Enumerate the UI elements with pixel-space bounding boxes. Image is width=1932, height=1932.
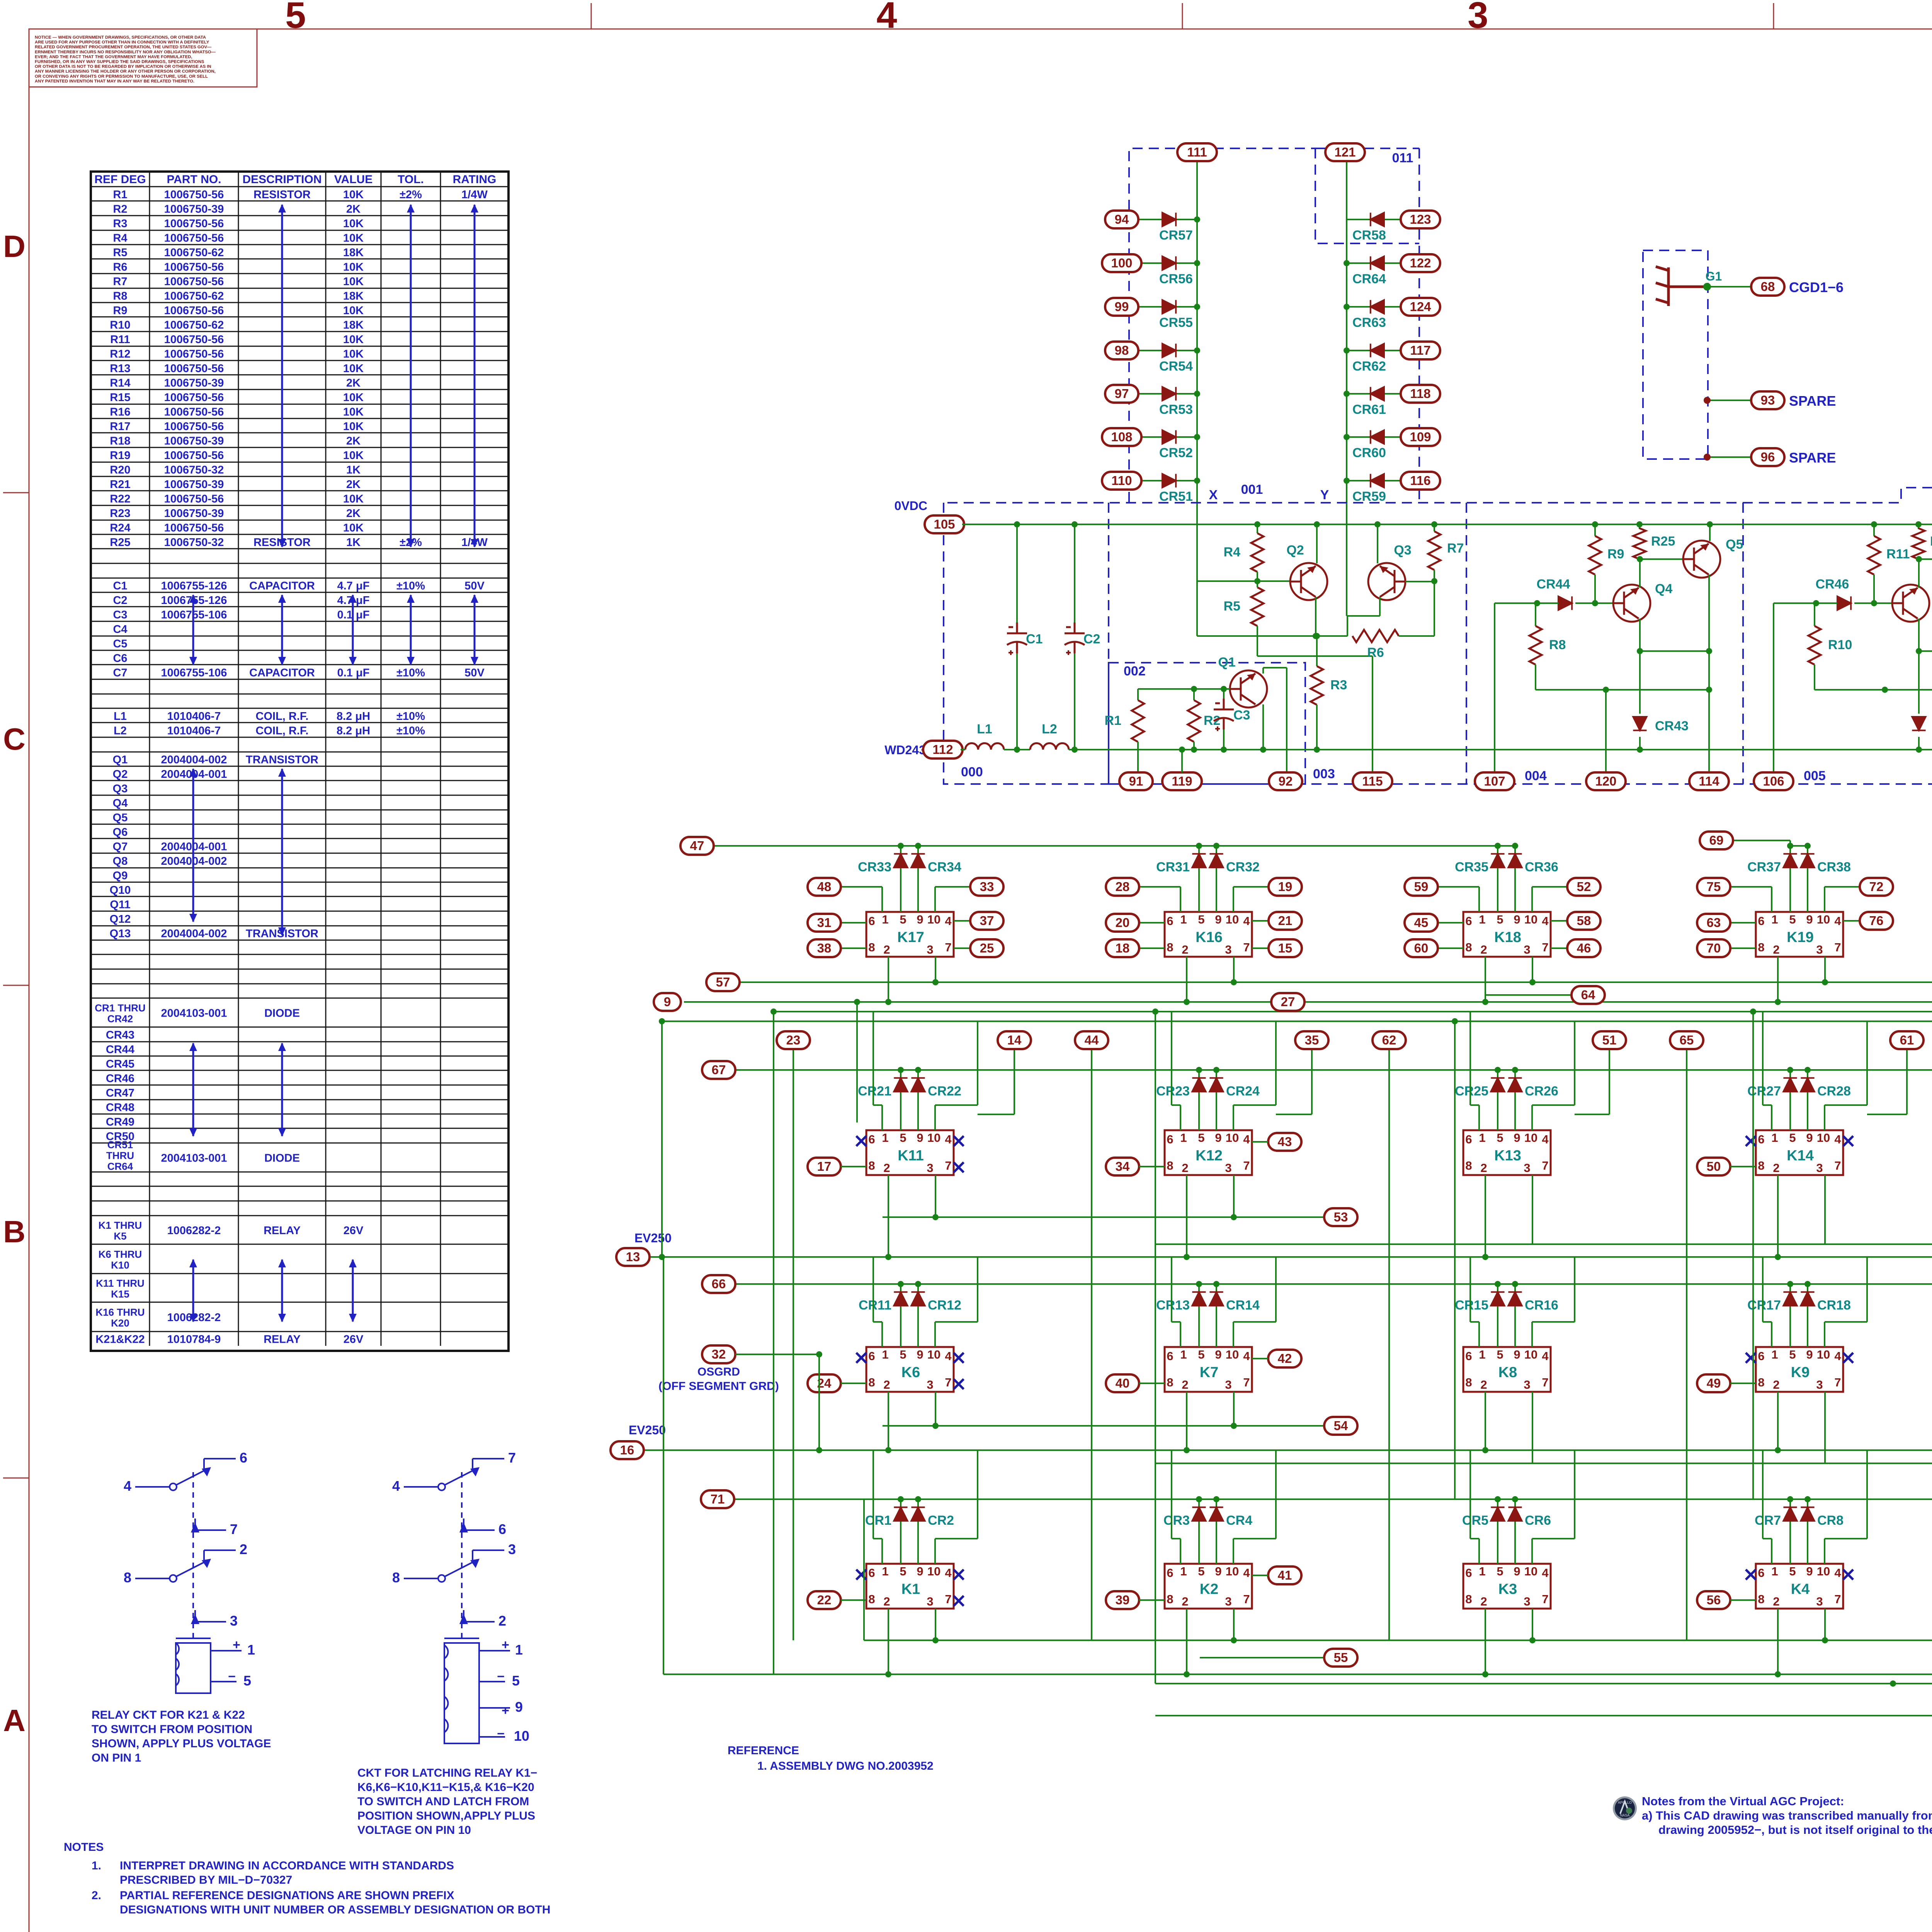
wire 114 vertical xyxy=(1708,651,1710,772)
svg-text:CR37: CR37 xyxy=(1747,860,1781,874)
relay K4 pin10 wire xyxy=(1824,1539,1825,1564)
svg-text:6: 6 xyxy=(1465,1566,1472,1580)
svg-text:8.2 μH: 8.2 μH xyxy=(337,710,370,723)
svg-text:10: 10 xyxy=(1226,1131,1239,1145)
svg-text:R6: R6 xyxy=(1367,645,1384,660)
wire terminal 124 to diode xyxy=(1347,306,1404,308)
relay K17 pin numbers xyxy=(868,913,952,956)
svg-text:3: 3 xyxy=(1524,943,1530,956)
svg-text:35: 35 xyxy=(1305,1033,1319,1047)
wire lower rail xyxy=(1814,665,1815,690)
svg-text:7: 7 xyxy=(1542,940,1548,954)
svg-text:55: 55 xyxy=(1334,1650,1348,1665)
svg-text:CR49: CR49 xyxy=(106,1116,134,1128)
svg-text:3: 3 xyxy=(927,1378,933,1391)
svg-text:PARTIAL REFERENCE DESIGNATIONS: PARTIAL REFERENCE DESIGNATIONS ARE SHOWN… xyxy=(120,1889,454,1902)
svg-text:2: 2 xyxy=(1773,1595,1779,1608)
diode CR11 xyxy=(900,1284,901,1347)
svg-text:a) This CAD drawing was transc: a) This CAD drawing was transcribed manu… xyxy=(1642,1809,1932,1822)
svg-text:4: 4 xyxy=(392,1478,400,1494)
svg-text:TOL.: TOL. xyxy=(398,173,424,186)
svg-text:1K: 1K xyxy=(346,464,361,476)
terminal 61 wire xyxy=(1906,1049,1908,1114)
svg-text:C2: C2 xyxy=(113,594,127,607)
wire 25 to 7 xyxy=(954,947,987,949)
svg-text:98: 98 xyxy=(1115,343,1129,357)
svg-text:6: 6 xyxy=(868,1349,875,1363)
svg-text:10: 10 xyxy=(927,913,940,926)
diode CR13 xyxy=(1198,1284,1200,1347)
relay K3 pin1 wire xyxy=(1478,1539,1480,1564)
svg-text:K3: K3 xyxy=(1498,1581,1517,1597)
svg-text:40: 40 xyxy=(1116,1376,1130,1390)
relay K9 pin1 wire xyxy=(1771,1322,1772,1347)
svg-text:CR38: CR38 xyxy=(1817,860,1851,874)
svg-text:1006750-62: 1006750-62 xyxy=(164,319,224,331)
diode CR60 xyxy=(1371,430,1384,444)
terminal 24 xyxy=(808,1374,841,1392)
svg-text:3: 3 xyxy=(927,943,933,956)
svg-text:20: 20 xyxy=(1116,915,1130,930)
terminal 121 xyxy=(1325,143,1365,161)
terminal 39 xyxy=(1106,1591,1139,1609)
svg-text:69: 69 xyxy=(1709,833,1724,847)
svg-text:ANY MANNER LICENSING THE HOLDE: ANY MANNER LICENSING THE HOLDER OR ANY O… xyxy=(35,69,216,74)
svg-text:Q4: Q4 xyxy=(1655,582,1672,596)
diode CR57 xyxy=(1162,213,1176,226)
svg-text:EV250: EV250 xyxy=(634,1231,672,1245)
svg-text:41: 41 xyxy=(1278,1568,1292,1582)
wire bottom mesh 4440 xyxy=(1155,1715,1932,1716)
svg-text:1010406-7: 1010406-7 xyxy=(167,710,221,723)
svg-text:+: + xyxy=(233,1638,240,1652)
wire WD243 bus through 003 004 005 xyxy=(1317,749,1932,750)
svg-text:CR52: CR52 xyxy=(1159,446,1193,460)
terminal 21 xyxy=(1269,912,1302,930)
diode CR23 xyxy=(1198,1070,1200,1130)
diode CR54 xyxy=(1162,344,1176,357)
terminal 122 xyxy=(1401,254,1440,272)
svg-text:1006750-32: 1006750-32 xyxy=(164,464,224,476)
svg-text:R12: R12 xyxy=(110,348,130,360)
terminal 44 xyxy=(1075,1031,1108,1049)
svg-text:CR6: CR6 xyxy=(1525,1513,1551,1528)
wire terminal 108 to diode xyxy=(1138,436,1197,438)
svg-text:3: 3 xyxy=(1225,1595,1231,1608)
relay K19 xyxy=(1756,912,1843,957)
svg-text:105: 105 xyxy=(934,517,955,531)
diode CR25 xyxy=(1497,1070,1498,1130)
relay K14 xyxy=(1756,1130,1843,1175)
resistor R10 xyxy=(1814,603,1815,626)
relay row4 pin stubs xyxy=(888,1609,889,1674)
svg-text:1: 1 xyxy=(1479,913,1485,926)
resistor R20 xyxy=(1918,524,1919,529)
svg-text:R24: R24 xyxy=(110,522,130,534)
svg-text:5: 5 xyxy=(1497,1565,1503,1578)
svg-text:2: 2 xyxy=(1480,1595,1487,1608)
svg-text:Q1: Q1 xyxy=(113,753,128,766)
wire 63 to 6 xyxy=(1714,922,1756,923)
svg-text:10K: 10K xyxy=(343,189,364,201)
relay K7 pin1 wire xyxy=(1180,1322,1181,1347)
terminal 92 xyxy=(1269,772,1302,790)
svg-text:NOTES: NOTES xyxy=(64,1841,104,1854)
svg-text:CAPACITOR: CAPACITOR xyxy=(249,580,315,592)
svg-text:L1: L1 xyxy=(114,710,127,723)
svg-text:2: 2 xyxy=(883,1595,890,1608)
svg-text:CR34: CR34 xyxy=(928,860,961,874)
svg-text:14: 14 xyxy=(1007,1033,1022,1047)
svg-text:CR21: CR21 xyxy=(858,1084,891,1099)
svg-text:37: 37 xyxy=(980,913,994,928)
terminal 17 xyxy=(808,1158,841,1175)
relay K8 xyxy=(1463,1347,1551,1392)
svg-text:R9: R9 xyxy=(113,304,127,317)
svg-text:OR OTHER DATA IS NOT TO BE REG: OR OTHER DATA IS NOT TO BE REGARDED BY I… xyxy=(35,65,211,69)
svg-text:5: 5 xyxy=(1198,1565,1204,1578)
svg-text:9: 9 xyxy=(1806,1131,1813,1145)
svg-text:drawing 2005952−, but is not i: drawing 2005952−, but is not itself orig… xyxy=(1658,1823,1932,1837)
svg-text:Q5: Q5 xyxy=(113,811,128,824)
svg-text:CR22: CR22 xyxy=(928,1084,961,1099)
terminal 62 wire xyxy=(1388,1049,1390,1640)
wire 46 to 7 xyxy=(1551,947,1584,949)
svg-text:CR55: CR55 xyxy=(1159,315,1193,330)
svg-text:10K: 10K xyxy=(343,391,364,404)
dashed box 001 xyxy=(1129,148,1419,502)
svg-text:2004103-001: 2004103-001 xyxy=(161,1152,227,1165)
relay K17 xyxy=(866,912,954,957)
svg-text:CR42: CR42 xyxy=(107,1013,133,1025)
relay row3 pin stubs xyxy=(888,1392,889,1450)
capacitor C1 xyxy=(1016,653,1018,750)
terminal 59 xyxy=(1405,878,1438,896)
svg-text:10K: 10K xyxy=(343,522,364,534)
relay K7 pin10 wire xyxy=(1233,1322,1234,1347)
relay K1 pin numbers xyxy=(868,1565,952,1608)
svg-text:25: 25 xyxy=(980,941,994,955)
terminal 57 xyxy=(706,973,740,991)
terminal 55 xyxy=(1324,1649,1357,1667)
terminal 91 xyxy=(1119,772,1153,790)
svg-text:EVER; AND THE FACT THAT THE GO: EVER; AND THE FACT THAT THE GOVERNMENT M… xyxy=(35,54,192,59)
svg-text:5: 5 xyxy=(1497,1348,1503,1361)
wire spare 93 xyxy=(1707,400,1754,401)
svg-text:19: 19 xyxy=(1278,879,1293,894)
svg-text:1006750-56: 1006750-56 xyxy=(164,362,224,375)
relay K16 pin10 wire xyxy=(1233,887,1234,912)
wire terminal 118 to diode xyxy=(1347,393,1404,395)
svg-text:+: + xyxy=(502,1703,509,1718)
wire 47 bus xyxy=(714,845,1515,847)
relay K4 xyxy=(1756,1564,1843,1609)
svg-text:R1: R1 xyxy=(113,189,127,201)
svg-text:2: 2 xyxy=(240,1541,247,1557)
svg-text:FURNISHED, OR IN ANY WAY SUPPL: FURNISHED, OR IN ANY WAY SUPPLIED THE SA… xyxy=(35,60,204,64)
relay row2 pin stubs xyxy=(888,1175,889,1257)
svg-text:1006750-56: 1006750-56 xyxy=(164,348,224,360)
relay K2 pin10 wire xyxy=(1233,1539,1234,1564)
svg-text:CR7: CR7 xyxy=(1755,1513,1781,1528)
svg-text:3: 3 xyxy=(927,1161,933,1175)
terminal 114 xyxy=(1689,772,1729,790)
svg-text:50: 50 xyxy=(1707,1159,1721,1173)
svg-text:10: 10 xyxy=(1817,1565,1830,1578)
svg-text:K6 THRU: K6 THRU xyxy=(99,1248,142,1260)
svg-text:8: 8 xyxy=(124,1570,131,1585)
svg-text:3: 3 xyxy=(927,1595,933,1608)
svg-text:1: 1 xyxy=(882,1348,888,1361)
svg-text:72: 72 xyxy=(1869,879,1884,894)
svg-text:K12: K12 xyxy=(1196,1148,1223,1164)
svg-text:1: 1 xyxy=(1479,1131,1485,1145)
svg-text:Notes from the Virtual AGC Pro: Notes from the Virtual AGC Project: xyxy=(1642,1794,1844,1808)
svg-text:9: 9 xyxy=(1215,1348,1221,1361)
relay K7 pin numbers xyxy=(1167,1348,1250,1391)
svg-text:10: 10 xyxy=(1524,1565,1537,1578)
svg-text:2004004-002: 2004004-002 xyxy=(161,927,227,940)
svg-text:TO SWITCH FROM POSITION: TO SWITCH FROM POSITION xyxy=(92,1723,252,1736)
svg-text:8: 8 xyxy=(868,940,875,954)
terminal 45 xyxy=(1405,914,1438,932)
svg-text:111: 111 xyxy=(1187,145,1207,159)
wire link rail xyxy=(1919,650,1932,652)
svg-text:61: 61 xyxy=(1900,1033,1914,1047)
diode CR56 xyxy=(1162,256,1176,270)
wire 71 bus xyxy=(734,1498,1932,1500)
svg-text:ON PIN 1: ON PIN 1 xyxy=(92,1752,141,1764)
svg-text:6: 6 xyxy=(1167,914,1173,928)
svg-text:8.2 μH: 8.2 μH xyxy=(337,724,370,737)
svg-text:18K: 18K xyxy=(343,290,364,302)
svg-text:K18: K18 xyxy=(1494,929,1521,946)
svg-text:9: 9 xyxy=(1514,913,1520,926)
svg-text:1010406-7: 1010406-7 xyxy=(167,724,221,737)
resistor R25 xyxy=(1639,524,1640,529)
relay K6 pin10 wire xyxy=(934,1322,936,1347)
terminal 118 xyxy=(1401,385,1440,403)
terminal 94 xyxy=(1105,211,1138,228)
svg-text:TRANSISTOR: TRANSISTOR xyxy=(246,753,318,766)
svg-text:1: 1 xyxy=(1771,913,1778,926)
terminal 43 xyxy=(1268,1133,1301,1151)
terminal 44 wire xyxy=(1091,1049,1092,1640)
wire 106 vertical xyxy=(1773,603,1774,772)
terminal 112 xyxy=(923,741,963,759)
svg-text:8: 8 xyxy=(1465,1159,1472,1172)
transistor Q5 xyxy=(1683,541,1720,578)
wire 36 line xyxy=(1155,1463,1932,1464)
svg-text:50V: 50V xyxy=(464,580,485,592)
relay K12 pin10 wire xyxy=(1233,1105,1234,1130)
svg-text:A: A xyxy=(3,1703,26,1738)
svg-text:2: 2 xyxy=(1182,1595,1188,1608)
svg-text:62: 62 xyxy=(1382,1033,1396,1047)
svg-text:1006750-39: 1006750-39 xyxy=(164,377,224,389)
terminal 38 xyxy=(808,939,841,957)
diode CR8 xyxy=(1807,1499,1808,1564)
svg-text:66: 66 xyxy=(712,1277,726,1291)
svg-text:9: 9 xyxy=(1806,1565,1813,1578)
transistor Q6 xyxy=(1892,585,1929,622)
svg-text:1006750-56: 1006750-56 xyxy=(164,232,224,244)
relay K16 pin numbers xyxy=(1167,913,1250,956)
svg-text:CGD1−6: CGD1−6 xyxy=(1789,279,1844,295)
svg-text:1010784-9: 1010784-9 xyxy=(167,1333,221,1345)
svg-text:R25: R25 xyxy=(110,536,130,549)
svg-text:CR33: CR33 xyxy=(858,860,891,874)
svg-text:7: 7 xyxy=(1243,1376,1250,1389)
terminal 98 xyxy=(1105,342,1138,359)
terminal 60 xyxy=(1405,939,1438,957)
parts table ditto arrows xyxy=(281,205,283,547)
svg-text:33: 33 xyxy=(980,879,994,894)
wire terminal 117 to diode xyxy=(1347,350,1404,351)
svg-text:10K: 10K xyxy=(343,304,364,317)
svg-text:+: + xyxy=(502,1638,509,1652)
wire Q6 collector xyxy=(1918,559,1920,588)
diode CR5 xyxy=(1497,1499,1498,1564)
resistor R7 xyxy=(1434,524,1435,531)
svg-text:R20: R20 xyxy=(1930,534,1932,549)
diode CR12 xyxy=(917,1284,919,1347)
svg-text:4: 4 xyxy=(1542,1566,1549,1580)
relay K17 pin10 wire xyxy=(934,887,936,912)
svg-text:6: 6 xyxy=(240,1450,247,1466)
diode CR17 xyxy=(1789,1284,1791,1347)
svg-text:R3: R3 xyxy=(113,218,127,230)
relay K9 pin10 wire xyxy=(1824,1322,1825,1347)
relay K4 pin1 wire xyxy=(1771,1539,1772,1564)
svg-text:K19: K19 xyxy=(1787,929,1814,946)
svg-text:REF DEG: REF DEG xyxy=(94,173,146,186)
svg-text:C3: C3 xyxy=(1233,708,1250,723)
svg-text:CAPACITOR: CAPACITOR xyxy=(249,667,315,679)
svg-text:R16: R16 xyxy=(110,406,130,418)
svg-text:000: 000 xyxy=(961,765,983,779)
relay K19 pin numbers xyxy=(1758,913,1841,956)
diode CR6 xyxy=(1514,1499,1516,1564)
relay K1 pin1 wire xyxy=(881,1539,883,1564)
svg-text:CR28: CR28 xyxy=(1817,1084,1851,1099)
diode CR3 xyxy=(1198,1499,1200,1564)
svg-text:10K: 10K xyxy=(343,218,364,230)
svg-text:C7: C7 xyxy=(113,667,127,679)
wire 67 bus xyxy=(735,1069,1932,1071)
svg-text:3: 3 xyxy=(1468,0,1488,36)
wire 45 to 6 xyxy=(1421,922,1463,923)
svg-text:7: 7 xyxy=(1834,1376,1841,1389)
relay K6 pin1 wire xyxy=(881,1322,883,1347)
svg-text:9: 9 xyxy=(1215,1565,1221,1578)
svg-text:5: 5 xyxy=(1789,1131,1796,1145)
svg-text:108: 108 xyxy=(1111,430,1132,444)
svg-text:10: 10 xyxy=(1817,1131,1830,1145)
svg-text:Q13: Q13 xyxy=(110,927,131,940)
svg-text:2: 2 xyxy=(883,1378,890,1391)
diode CR37 xyxy=(1789,846,1791,912)
svg-text:5: 5 xyxy=(285,0,306,36)
svg-text:K8: K8 xyxy=(1498,1364,1517,1381)
terminal 47 xyxy=(680,837,714,855)
svg-text:C1: C1 xyxy=(1026,632,1043,646)
svg-text:7: 7 xyxy=(945,1592,951,1606)
svg-text:7: 7 xyxy=(230,1521,238,1537)
svg-text:5: 5 xyxy=(1198,1348,1204,1361)
relay K11 pin1 wire xyxy=(881,1105,883,1130)
svg-text:1: 1 xyxy=(1180,1131,1187,1145)
svg-text:R9: R9 xyxy=(1607,547,1624,561)
wire Q4 emitter xyxy=(1639,619,1641,651)
svg-text:6: 6 xyxy=(1465,914,1472,928)
svg-text:CR57: CR57 xyxy=(1159,228,1193,243)
svg-text:3: 3 xyxy=(1816,1161,1823,1175)
svg-text:TO SWITCH AND LATCH FROM: TO SWITCH AND LATCH FROM xyxy=(357,1795,529,1808)
svg-text:31: 31 xyxy=(817,915,832,930)
terminal 107 xyxy=(1475,772,1514,790)
wire 21 to 4 xyxy=(1252,920,1285,922)
terminal 52 xyxy=(1567,878,1600,896)
wire 54 line xyxy=(883,1425,1323,1427)
wire Q1 emitter xyxy=(1262,704,1264,750)
relay K11 xyxy=(866,1130,954,1175)
svg-text:Q3: Q3 xyxy=(113,782,128,795)
wire long mesh line A xyxy=(774,1011,1932,1012)
svg-text:4: 4 xyxy=(1243,1133,1250,1146)
terminal 65 wire xyxy=(1686,1049,1687,1640)
svg-text:Q12: Q12 xyxy=(110,913,131,925)
svg-text:Q8: Q8 xyxy=(113,855,128,867)
svg-text:K13: K13 xyxy=(1494,1148,1521,1164)
svg-text:CR32: CR32 xyxy=(1226,860,1260,874)
wire node after L1 xyxy=(1004,749,1030,750)
svg-text:1006750-56: 1006750-56 xyxy=(164,493,224,505)
notice box xyxy=(29,29,257,87)
svg-text:70: 70 xyxy=(1707,941,1721,955)
svg-text:4: 4 xyxy=(1834,1349,1841,1363)
svg-text:71: 71 xyxy=(711,1492,725,1506)
inductor L1 xyxy=(965,743,1004,750)
relay K13 pin numbers xyxy=(1465,1131,1549,1175)
svg-text:1006750-56: 1006750-56 xyxy=(164,304,224,317)
wire Q2 base junction xyxy=(1257,572,1258,581)
svg-text:9: 9 xyxy=(917,1131,923,1145)
svg-text:10K: 10K xyxy=(343,333,364,346)
svg-text:5: 5 xyxy=(1789,1348,1796,1361)
svg-text:CR23: CR23 xyxy=(1156,1084,1190,1099)
wire 66 bus xyxy=(735,1283,1932,1285)
svg-text:CR2: CR2 xyxy=(928,1513,954,1528)
inductor L2 xyxy=(1030,743,1069,750)
wire node after L2 xyxy=(1069,749,1317,750)
svg-text:6: 6 xyxy=(1465,1349,1472,1363)
terminal 100 xyxy=(1102,254,1141,272)
svg-text:54: 54 xyxy=(1334,1418,1348,1433)
svg-text:K21&K22: K21&K22 xyxy=(95,1333,145,1345)
terminal 23 xyxy=(777,1031,810,1049)
svg-text:CR14: CR14 xyxy=(1226,1298,1260,1313)
diode CR38 xyxy=(1807,846,1808,912)
terminal 63 xyxy=(1697,914,1730,932)
svg-text:1006750-56: 1006750-56 xyxy=(164,261,224,273)
svg-text:4.7 μF: 4.7 μF xyxy=(337,580,370,592)
svg-text:X: X xyxy=(1209,488,1218,502)
svg-text:R20: R20 xyxy=(110,464,130,476)
wire CR44 to base xyxy=(1575,602,1613,604)
svg-text:POSITION SHOWN,APPLY PLUS: POSITION SHOWN,APPLY PLUS xyxy=(357,1810,535,1822)
relay K14 pin1 wire xyxy=(1771,1105,1772,1130)
